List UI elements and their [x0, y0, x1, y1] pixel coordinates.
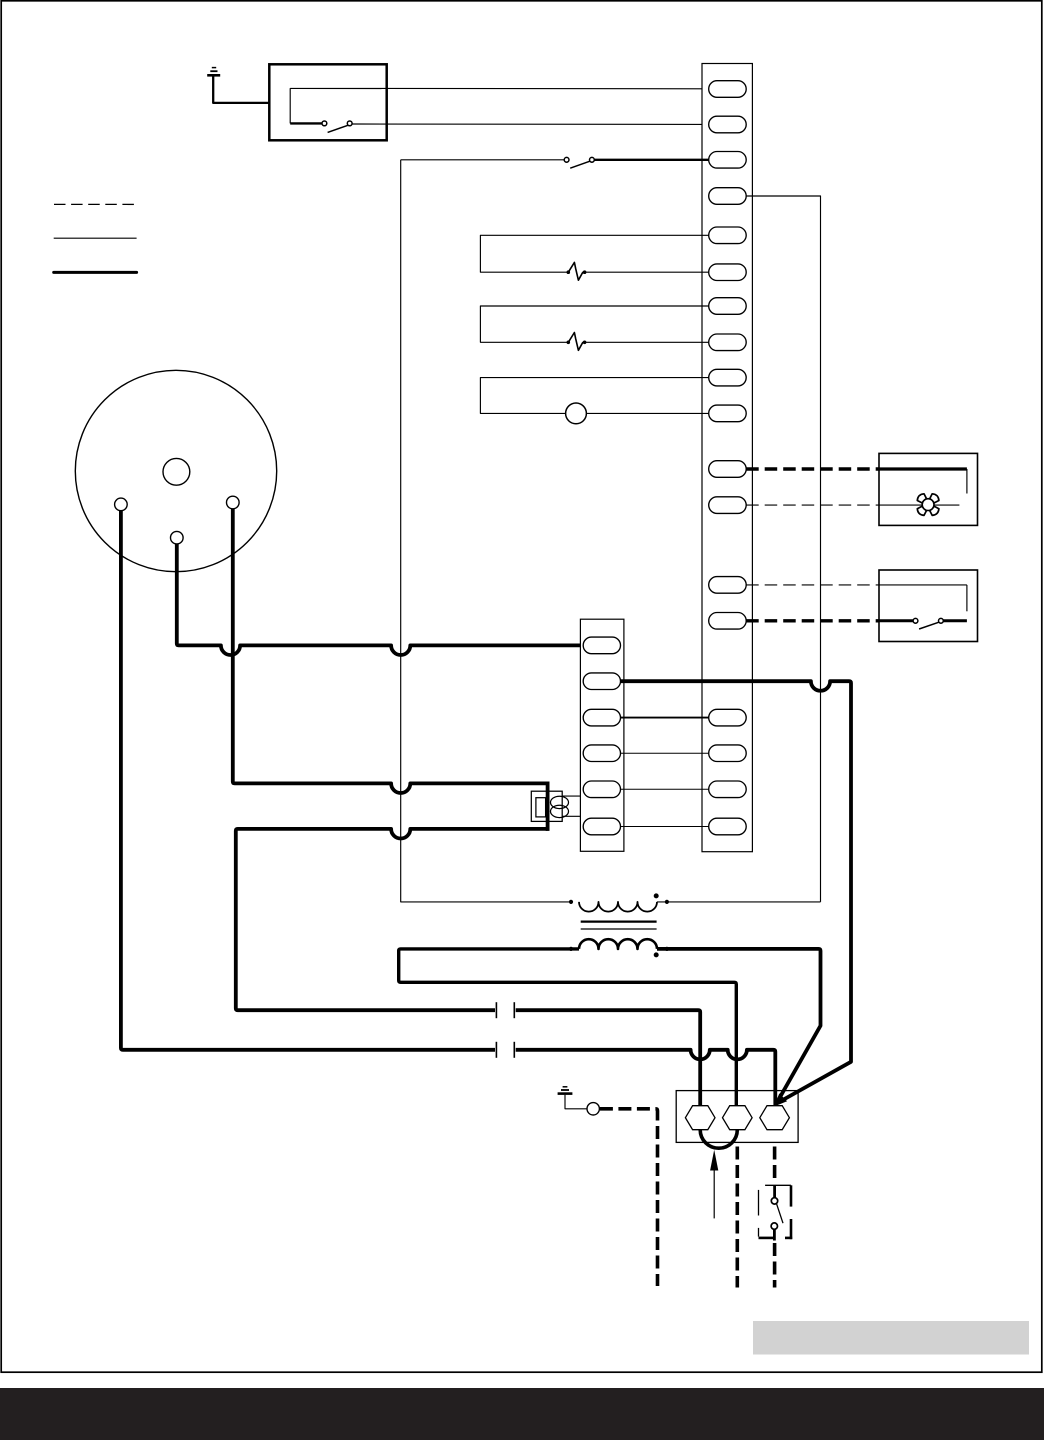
- pressure switch contacts: [773, 1185, 776, 1197]
- legend dashed line (field wiring): [54, 203, 137, 205]
- igniter coil lower: [551, 805, 569, 817]
- fan motor hub: [922, 499, 934, 511]
- wire capacitor C2 to plug pin 3: [516, 1050, 776, 1106]
- wire igniter connector bottom to capacitor C1 and plug pin 1: [236, 829, 548, 1010]
- wire secondary left lead to plug pin 2: [399, 949, 737, 1106]
- wire dashed thin terminal 13 to aux switch box: [746, 584, 879, 586]
- wire ground stem to door switch box: [213, 77, 269, 103]
- gas valve loop (terminals 9-10): [480, 378, 709, 414]
- wire capacitor C1 to plug pin 1: [516, 1010, 701, 1106]
- wire dashed plug pin 2 down: [735, 1147, 739, 1288]
- auxiliary switch box: [879, 570, 978, 642]
- igniter connector right edge: [546, 782, 550, 831]
- transformer primary lead dots: [569, 900, 572, 903]
- limit switch L2 loop (terminals 7-8): [480, 306, 709, 342]
- jumper loop pins 1-2: [700, 1130, 737, 1149]
- transformer T1 secondary coil: [579, 939, 657, 949]
- fan motor blades: [930, 506, 939, 515]
- wire dashed thick terminal 11 to vent fan box: [746, 467, 879, 470]
- wire ground stem to circle: [565, 1095, 587, 1109]
- switch SW2 (row 3): [564, 157, 569, 162]
- wire door switch to terminal 2: [352, 123, 709, 125]
- capacitor C2 plates: [495, 1042, 497, 1058]
- wire through fan motor: [879, 504, 959, 506]
- wire dashed thick terminal 14 to aux switch box: [746, 619, 879, 622]
- wire TB2 pin4 to TB1 pin16: [621, 752, 709, 754]
- vent fan box: [879, 453, 978, 525]
- wire dashed ground to bottom edge: [600, 1109, 658, 1286]
- terminal strip TB1 body: [702, 64, 752, 852]
- wire igniter to middle strip lower: [562, 815, 580, 817]
- wire switch SW2 to terminal 3: [594, 159, 709, 161]
- pressure switch outline: [765, 1184, 791, 1186]
- wire inside aux box top L: [879, 584, 967, 586]
- wire row3 left segment: [401, 159, 565, 161]
- motor terminal T3: [227, 496, 240, 509]
- transformer secondary lead dots: [569, 947, 572, 950]
- ground symbol (door switch): [207, 74, 220, 77]
- wire secondary right lead to plug pin 3: [657, 949, 821, 1102]
- wire TB2 pin5 to TB1 pin17: [621, 788, 709, 790]
- ground connection circle: [587, 1103, 599, 1115]
- footer black bar: [0, 1388, 1044, 1440]
- capacitor C1 plates: [495, 1002, 497, 1018]
- plug pin 1 hex: [685, 1106, 715, 1130]
- wire primary right lead: [657, 901, 821, 903]
- limit switch L1 loop (terminals 5-6): [480, 235, 709, 272]
- switch SW1 door interlock: [290, 122, 322, 124]
- wire TB2 pin6 to TB1 pin18: [621, 826, 709, 828]
- terminal strip TB2 pins 1-6: [583, 637, 620, 654]
- wire motor T1 to capacitor C2: [121, 511, 495, 1050]
- wire TB2 pin3 to TB1 pin15: [621, 717, 709, 719]
- wire inside fan box top L: [879, 467, 967, 470]
- wire dashed plug pin 3 to pressure switch: [773, 1147, 777, 1182]
- wire motor T3 to igniter connector top: [233, 509, 548, 793]
- igniter connector inner shell: [536, 798, 546, 817]
- plug pin 2 hex: [723, 1106, 753, 1130]
- arrow pointing at jumper: [710, 1150, 718, 1171]
- wire dashed thin terminal 12 to vent fan box: [746, 504, 879, 506]
- motor terminal T2: [171, 531, 184, 544]
- plug pin 3 hex: [760, 1106, 790, 1130]
- power plug body: [676, 1091, 798, 1143]
- limit switch L1 element: [568, 262, 583, 280]
- gas valve circle: [566, 403, 587, 424]
- motor terminal T1: [115, 498, 128, 511]
- wire inner L door switch: [289, 88, 291, 123]
- legend thick line (line voltage wiring): [54, 271, 137, 274]
- door switch box: [269, 64, 386, 140]
- transformer T1 primary coil: [579, 902, 657, 912]
- blower motor hub: [163, 458, 190, 485]
- limit switch L2 element: [568, 333, 583, 351]
- wire TB2 pin 2 to plug pin 3 (line hot): [621, 681, 852, 1102]
- wire dashed pressure switch down: [773, 1243, 777, 1288]
- wire door switch to terminal 1: [290, 87, 709, 89]
- igniter coil upper: [551, 796, 569, 808]
- wire long vertical x=400 to transformer primary: [401, 160, 571, 902]
- wire igniter to middle strip upper: [562, 795, 580, 797]
- transformer T1 core: [581, 920, 657, 922]
- ground symbol (chassis bottom): [558, 1092, 573, 1095]
- legend thin line (low voltage wiring): [54, 237, 137, 239]
- terminal strip TB2 body: [580, 619, 624, 851]
- blower motor body: [75, 370, 276, 571]
- terminal strip TB1 pins 1-18: [709, 81, 747, 98]
- wire terminal 4 to vertical x=820: [746, 196, 820, 902]
- igniter connector outer shell: [531, 791, 562, 821]
- arrowhead at plug pin 3: [774, 1093, 787, 1106]
- footnote gray box: [753, 1321, 1029, 1355]
- switch SW3 auxiliary: [879, 619, 913, 622]
- wire motor T2 to middle strip pin 1: [177, 544, 582, 655]
